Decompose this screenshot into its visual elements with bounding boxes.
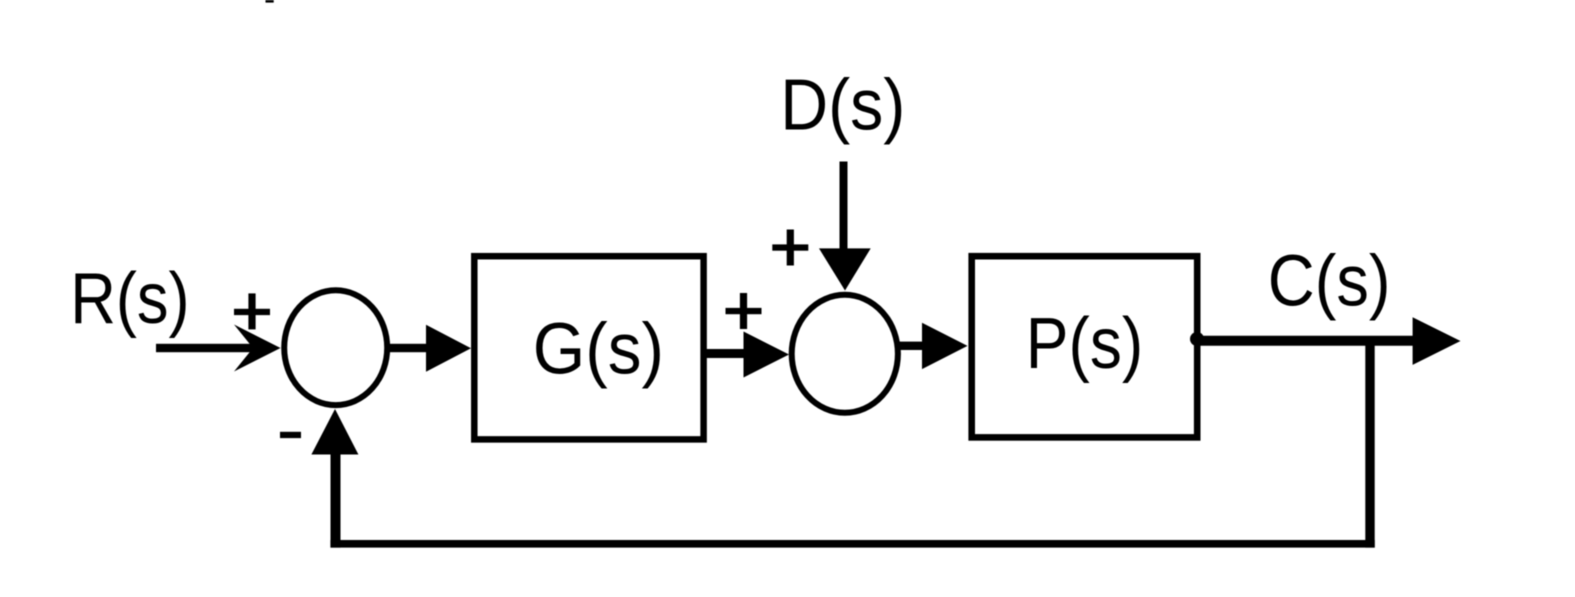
- junction dot at P(s) output: [1190, 332, 1204, 346]
- wire S1 to G(s): [388, 344, 433, 352]
- cropped text fragment at top edge: [266, 0, 274, 3]
- arrowhead into S1 (stealth): [234, 325, 281, 372]
- feedback wire up at left: [331, 450, 341, 548]
- feedback wire bottom: [330, 540, 1374, 548]
- block P(s): [972, 256, 1197, 437]
- output arrowhead: [1413, 317, 1461, 365]
- plus sign at S2 top input: [772, 230, 808, 266]
- plus sign at S2 left input: [726, 293, 762, 329]
- arrowhead into P(s) block: [922, 323, 968, 369]
- minus sign at S1 feedback input: [280, 432, 301, 438]
- svg-text:P(s): P(s): [1026, 304, 1143, 384]
- arrowhead into G(s) block: [426, 325, 471, 372]
- wire G(s) to summing junction S2: [704, 349, 747, 358]
- summing junction S1: [284, 290, 387, 405]
- svg-text:R(s): R(s): [70, 259, 189, 339]
- svg-text:D(s): D(s): [780, 66, 905, 146]
- wire R(s) to summing junction S1: [156, 344, 258, 352]
- arrowhead feedback into S1: [311, 409, 358, 455]
- summing junction S2: [792, 295, 898, 413]
- arrowhead D(s) into S2: [819, 248, 871, 290]
- feedback wire down at right: [1365, 344, 1374, 548]
- block G(s): [474, 256, 703, 439]
- plus sign at S1 input: [234, 293, 270, 329]
- wire P(s) to output C(s): [1197, 336, 1416, 346]
- svg-text:G(s): G(s): [533, 310, 664, 390]
- svg-text:C(s): C(s): [1268, 242, 1391, 322]
- wire D(s) down to S2: [840, 162, 848, 254]
- wire S2 to P(s): [897, 342, 927, 350]
- arrowhead into S2: [744, 332, 790, 378]
